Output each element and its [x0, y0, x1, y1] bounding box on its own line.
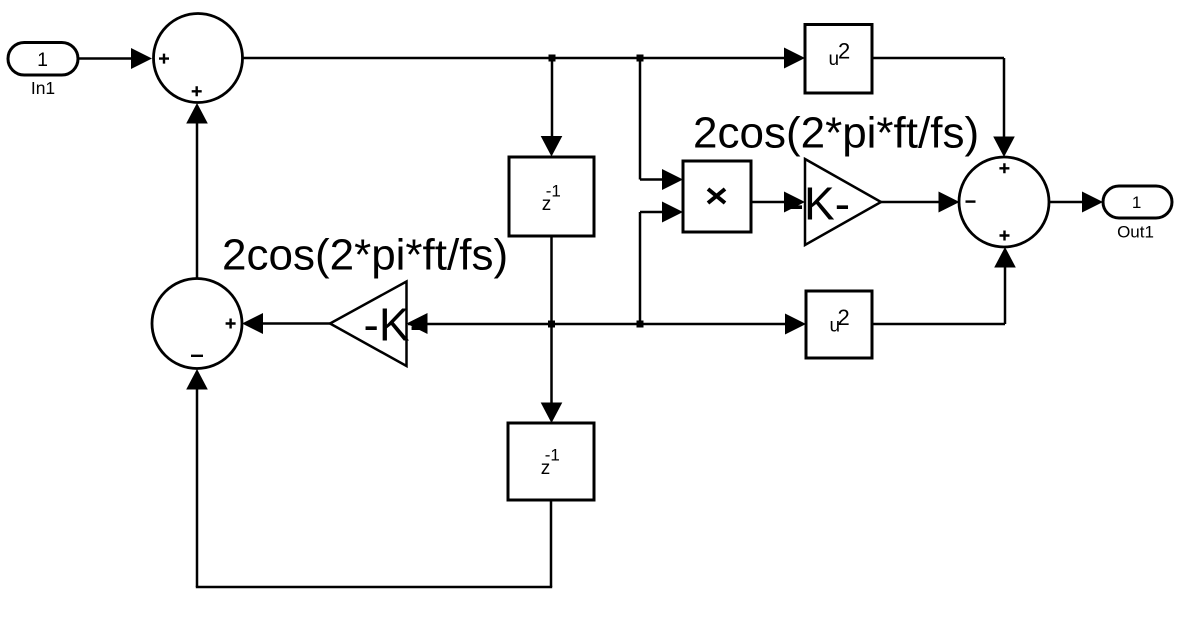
svg-text:2: 2: [838, 38, 850, 63]
svg-text:1: 1: [1132, 193, 1141, 212]
svg-text:-K-: -K-: [789, 178, 850, 230]
svg-text:In1: In1: [31, 78, 55, 98]
svg-text:Out1: Out1: [1117, 223, 1154, 242]
svg-text:1: 1: [37, 49, 48, 71]
svg-text:-1: -1: [546, 182, 561, 201]
svg-text:-K-: -K-: [364, 299, 425, 351]
svg-text:2cos(2*pi*ft/fs): 2cos(2*pi*ft/fs): [693, 109, 979, 158]
svg-text:2cos(2*pi*ft/fs): 2cos(2*pi*ft/fs): [222, 231, 508, 280]
svg-text:2: 2: [838, 305, 850, 330]
svg-text:-1: -1: [545, 446, 560, 465]
